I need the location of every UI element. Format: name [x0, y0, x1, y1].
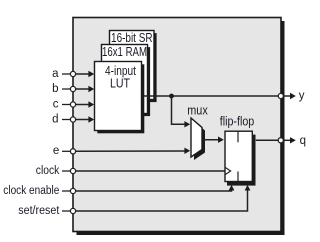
- wire flip-flop output to q pin: [256, 139, 281, 141]
- svg-text:e: e: [53, 145, 59, 157]
- output y: [278, 90, 305, 102]
- input set/reset: [18, 185, 250, 217]
- wire LUT output to y pin: [142, 95, 281, 97]
- input e: [53, 145, 190, 157]
- svg-text:q: q: [300, 135, 306, 147]
- svg-text:mux: mux: [187, 103, 208, 117]
- box 4-input LUT: [95, 62, 145, 134]
- svg-text:c: c: [53, 98, 59, 110]
- input b: [52, 83, 94, 95]
- output q: [278, 135, 306, 147]
- svg-text:y: y: [299, 90, 305, 102]
- svg-text:clock: clock: [36, 165, 60, 177]
- svg-text:16x1 RAM: 16x1 RAM: [102, 45, 147, 59]
- svg-text:flip-flop: flip-flop: [220, 115, 255, 129]
- outer slice boundary: [73, 18, 285, 236]
- svg-text:set/reset: set/reset: [18, 205, 60, 217]
- svg-text:d: d: [52, 113, 58, 125]
- input clock enable: [3, 185, 234, 197]
- svg-text:b: b: [52, 83, 58, 95]
- input a: [52, 68, 94, 80]
- svg-text:16-bit SR: 16-bit SR: [111, 31, 153, 45]
- wire branch from junction down to mux input: [172, 96, 186, 124]
- input c: [53, 98, 94, 110]
- junction node on y wire: [169, 94, 174, 99]
- input clock: [36, 165, 225, 177]
- mux: [187, 103, 208, 160]
- input d: [52, 113, 94, 125]
- box 16x1 RAM: [102, 45, 151, 117]
- flip-flop: [220, 115, 256, 186]
- wire mux output to flip-flop D input: [203, 139, 220, 141]
- svg-text:LUT: LUT: [110, 77, 130, 91]
- box 16-bit SR: [110, 31, 157, 103]
- svg-text:clock enable: clock enable: [3, 185, 59, 197]
- svg-text:a: a: [52, 68, 59, 80]
